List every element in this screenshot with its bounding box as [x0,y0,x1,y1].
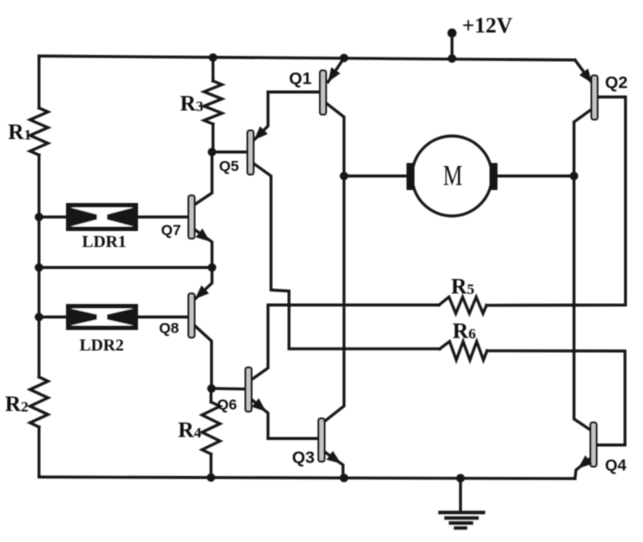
svg-text:LDR2: LDR2 [80,336,124,355]
svg-text:R5: R5 [451,274,474,299]
resistor R2 [30,377,48,427]
arrow Q6 emitter [252,398,266,411]
wire R5 line right to Q2 base [487,97,626,305]
wire Q6 emitter to Q3 base [251,399,319,439]
node dot R4 bottom [207,473,216,482]
arrow Q1 emitter [328,67,340,82]
wire Q2 collector to motor-right rail [574,109,592,176]
node dot rail-tie [35,263,44,272]
arrow Q5 emitter [254,126,268,140]
node dot emitter tie [208,263,217,272]
wire bottom rail [39,477,575,479]
svg-text:+12V: +12V [462,13,513,38]
svg-text:R2: R2 [5,391,28,416]
wire Q4 emitter to bottom rail [575,457,592,479]
resistor R1 [30,108,48,155]
wire Q1 emitter from rail [328,58,344,82]
wire Q7 emitter down to tie node [194,229,212,268]
ground [440,478,484,528]
arrow Q8 emitter [195,285,209,299]
svg-text:LDR1: LDR1 [82,232,126,251]
node dot motor left [340,172,349,181]
node dot rail-LDR1 [35,213,44,222]
node dot rail-R3 [209,53,218,62]
svg-text:R1: R1 [8,119,31,144]
motor left brush [407,163,415,190]
wire LDR1 right to Q7 base [138,216,189,219]
wire emitter-tie line y268 [39,266,212,269]
resistor R4 [202,402,220,454]
wire R4 bottom to rail [210,454,213,478]
transistor Q7 bar [189,196,195,239]
svg-text:Q6: Q6 [217,397,237,414]
arrow Q7 emitter [196,229,210,242]
motor right brush [490,163,498,190]
wire node A vertical (Q7 collector to Q5-base node) [194,152,212,205]
wire motor left lead [344,175,406,178]
arrow Q3 emitter [326,451,341,464]
svg-text:R4: R4 [178,417,202,442]
transistor Q4 bar [591,423,597,467]
wire LDR2 right to Q8 base [138,316,189,319]
transistor Q6 bar [246,368,252,412]
svg-text:Q7: Q7 [161,222,181,239]
transistor Q2 bar [592,76,598,120]
transistor Q1 bar [320,71,326,115]
svg-text:R3: R3 [180,91,203,116]
resistor R6 [440,342,487,361]
svg-text:Q8: Q8 [159,320,179,337]
wire +12V stub [451,35,454,58]
wire Q1-base down to Q5 emitter [254,92,268,140]
svg-text:Q2: Q2 [605,73,628,92]
svg-text:Q4: Q4 [605,458,626,475]
wire R3 bottom to Q5-base node [212,124,215,152]
wire motor-right rail down to Q4 collector [574,176,592,431]
svg-text:Q1: Q1 [289,69,312,88]
motor M circle [412,136,492,216]
wire Q6 collector up to R5 line [251,305,439,380]
LDR1 symbol [66,203,138,231]
wire Q5 collector down with jog to R6 line [253,163,440,349]
svg-text:R6: R6 [453,318,477,343]
svg-text:Q5: Q5 [219,158,239,175]
transistor Q3 bar [319,419,325,462]
wire Q3 emitter to bottom rail [325,452,343,478]
wire R6 line right of squiggle [487,351,625,445]
LDR2 symbol [66,304,138,330]
wire LDR2 left [39,316,66,319]
+12V terminal dot [447,28,456,37]
resistor R3 [204,81,222,124]
wire Q8 emitter from tie node [195,268,212,300]
node dot motor right [570,172,579,181]
wire R3 top stub [212,57,215,81]
node dot rail-Q1 [340,54,349,63]
svg-text:Q3: Q3 [292,448,315,467]
wire left rail mid (R1 to R2) [38,155,41,377]
wire Q8 collector down to Q6-base node [194,325,212,389]
wire LDR1 left [39,216,66,219]
arrow Q2 emitter [579,69,592,84]
node dot Q5 base [208,148,217,157]
wire Q1 collector to motor-left rail [326,103,344,176]
node dot rail +12V [448,54,457,63]
node dot Q6 base [207,384,216,393]
arrow Q4 emitter [578,455,592,468]
node dot ground [456,474,465,483]
transistor Q5 bar [248,131,254,175]
wire top rail [39,56,575,60]
node dot Q3 emitter rail [340,474,349,483]
wire left rail upper (top rail to R1) [38,56,41,108]
wire R4 top stub [210,389,213,403]
node dot rail-LDR2 [35,313,44,322]
wire Q4 base [597,444,625,447]
wire Q5 base [212,151,248,154]
wire Q1 base [268,91,321,94]
wire Q2 emitter from rail [575,60,592,83]
wire motor right lead [498,175,574,178]
transistor Q8 bar [189,294,195,338]
wire left rail lower (R2 to bottom rail) [38,427,41,477]
wire motor-left rail down to Q3 [325,176,344,421]
resistor R5 [439,297,487,314]
svg-text:M: M [443,161,463,192]
wire Q6 base [212,387,246,390]
